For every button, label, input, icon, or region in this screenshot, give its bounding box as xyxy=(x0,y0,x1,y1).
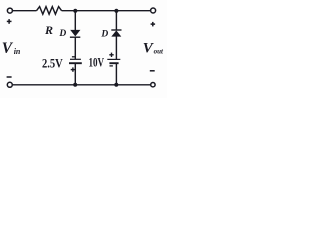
svg-text:D: D xyxy=(58,29,66,39)
svg-text:2.5V: 2.5V xyxy=(42,56,63,71)
svg-text:V: V xyxy=(2,40,14,57)
svg-text:out: out xyxy=(154,48,164,56)
svg-text:10V: 10V xyxy=(89,55,105,70)
svg-text:in: in xyxy=(14,47,21,56)
svg-text:R: R xyxy=(44,23,53,37)
svg-text:D: D xyxy=(100,29,108,39)
